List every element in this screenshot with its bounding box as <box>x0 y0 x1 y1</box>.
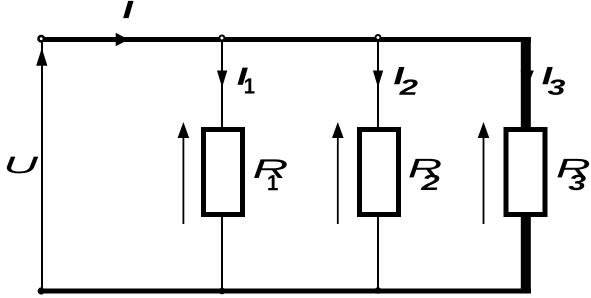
label R1 <box>254 159 287 190</box>
current arrow I2 (down) <box>373 71 383 88</box>
voltage arrow across R3 (up) <box>478 122 490 224</box>
wire top rail <box>41 37 531 42</box>
wire left branch (source) <box>41 40 43 290</box>
node 2 top <box>376 35 381 40</box>
voltage arrow U (up) <box>36 48 47 66</box>
wire branch 1 bottom <box>221 217 223 288</box>
wire branch 2 top <box>377 42 379 127</box>
wire branch 2 bottom <box>377 217 379 288</box>
terminal top-left <box>39 36 44 41</box>
label R2 <box>409 159 440 190</box>
label R3 <box>557 159 589 190</box>
label I3 <box>542 67 565 95</box>
label U <box>7 157 38 174</box>
resistor R1 <box>204 130 243 215</box>
label I1 <box>237 68 254 94</box>
current arrow I on top rail <box>116 33 129 47</box>
label I <box>123 1 133 18</box>
wire branch 1 top <box>221 42 223 127</box>
wire branch 3 bottom (thick) <box>521 217 531 294</box>
voltage arrow across R2 (up) <box>332 122 344 224</box>
current arrow I3 (down) <box>521 71 534 88</box>
voltage arrow across R1 (up) <box>178 122 190 224</box>
terminal bottom-left <box>38 287 45 294</box>
node 1 top <box>219 36 224 41</box>
resistor R2 <box>360 130 399 215</box>
resistor R3 <box>506 130 545 215</box>
wire branch 3 top (thick) <box>521 37 531 127</box>
node 1 bottom <box>219 288 226 295</box>
wire bottom rail <box>41 289 531 294</box>
current arrow I1 (down) <box>217 71 227 88</box>
label I2 <box>394 67 418 95</box>
node 2 bottom <box>375 287 382 294</box>
